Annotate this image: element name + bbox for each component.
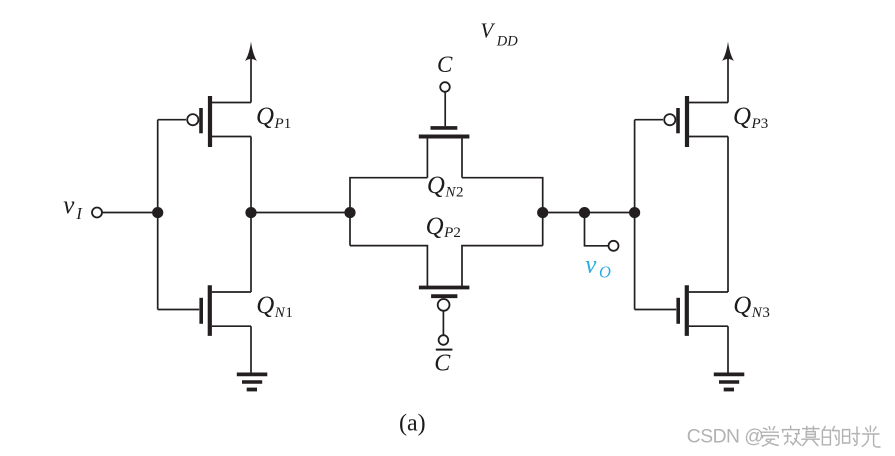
svg-text:1: 1: [285, 305, 293, 321]
terminal bubble Cbar: [439, 335, 449, 345]
svg-text:P: P: [274, 116, 284, 132]
input terminal bubble vI: [92, 208, 102, 218]
wire QN3 source to ground: [727, 326, 729, 374]
wire right gate rail: [634, 120, 636, 310]
svg-text:P: P: [443, 225, 453, 241]
wire QP3 gate lead: [635, 119, 663, 121]
svg-text:v: v: [585, 252, 597, 279]
terminal bubble C: [440, 82, 450, 92]
svg-text:C: C: [437, 52, 453, 77]
svg-text:DD: DD: [496, 33, 518, 49]
wire inverter output to TG left: [251, 212, 350, 214]
ground left: [237, 374, 267, 389]
transistor QP3: [664, 96, 728, 147]
power VDD arrow right: [722, 42, 734, 103]
svg-text:V: V: [480, 19, 495, 43]
svg-text:2: 2: [453, 225, 461, 241]
transistor QN2: [419, 128, 470, 178]
wire left drain rail: [250, 137, 252, 293]
wire QN1 source to ground: [250, 326, 252, 374]
svg-text:Q: Q: [733, 103, 751, 130]
watermark CSDN: [687, 426, 880, 447]
wire TG right to right gate rail: [543, 212, 635, 214]
svg-text:(a): (a): [399, 411, 426, 437]
label QN2: [427, 172, 464, 200]
svg-text:N: N: [751, 305, 763, 321]
svg-text:CSDN @: CSDN @: [687, 426, 764, 447]
wire right drain rail: [727, 137, 729, 293]
label QP2: [426, 213, 461, 241]
svg-text:C: C: [434, 350, 451, 376]
label vO: [585, 252, 611, 282]
label QP3: [733, 103, 768, 132]
wire QP1 gate lead: [158, 119, 186, 121]
transistor QN1: [201, 285, 251, 336]
wire QN3 gate lead: [635, 309, 677, 311]
wire TG top-right branch: [462, 178, 543, 246]
wire TG bottom-left branch: [350, 246, 427, 287]
hanzi ai: [762, 427, 779, 446]
hanzi ji: [782, 426, 801, 445]
label VDD: [480, 19, 518, 50]
hanzi de: [822, 426, 839, 445]
transistor QP2: [419, 288, 470, 311]
wire vO tap: [585, 213, 609, 246]
hanzi guang: [862, 426, 880, 447]
svg-text:N: N: [444, 185, 456, 201]
svg-text:Q: Q: [256, 103, 274, 130]
wire C to QN2 gate: [444, 92, 446, 126]
node vO tap dot: [579, 207, 590, 218]
label QN1: [256, 292, 293, 321]
node input junction dot: [152, 207, 163, 218]
node TG right dot: [537, 207, 548, 218]
hanzi mo: [802, 426, 820, 445]
svg-text:Q: Q: [733, 292, 751, 319]
node TG left dot: [344, 207, 355, 218]
svg-text:P: P: [751, 116, 761, 132]
svg-text:I: I: [75, 204, 83, 223]
svg-text:Q: Q: [256, 292, 274, 319]
svg-text:O: O: [599, 262, 611, 281]
svg-text:v: v: [63, 192, 75, 219]
wire QP2 gate to Cbar: [442, 311, 444, 335]
power VDD arrow left: [245, 42, 257, 103]
svg-text:3: 3: [761, 116, 769, 132]
transistor QN3: [678, 285, 728, 336]
svg-text:2: 2: [456, 185, 464, 201]
wire input to left gate rail: [102, 212, 158, 214]
node right inverter input dot: [629, 207, 640, 218]
ground right: [714, 374, 745, 389]
input label vI: [63, 192, 83, 223]
node left inverter output dot: [245, 207, 256, 218]
wire TG bottom-right branch: [462, 246, 543, 287]
transistor QP1: [187, 96, 251, 147]
svg-text:1: 1: [284, 116, 292, 132]
svg-text:Q: Q: [427, 172, 445, 199]
label QN3: [733, 292, 770, 321]
wire TG top-left branch: [350, 178, 427, 246]
wire QN1 gate lead: [158, 309, 200, 311]
svg-text:3: 3: [762, 305, 770, 321]
label Cbar: [434, 349, 452, 377]
hanzi shi: [843, 427, 860, 445]
svg-text:N: N: [274, 305, 286, 321]
wire left gate rail: [157, 120, 159, 310]
svg-text:Q: Q: [426, 213, 444, 240]
label QP1: [256, 103, 291, 132]
terminal bubble vO: [609, 241, 619, 251]
